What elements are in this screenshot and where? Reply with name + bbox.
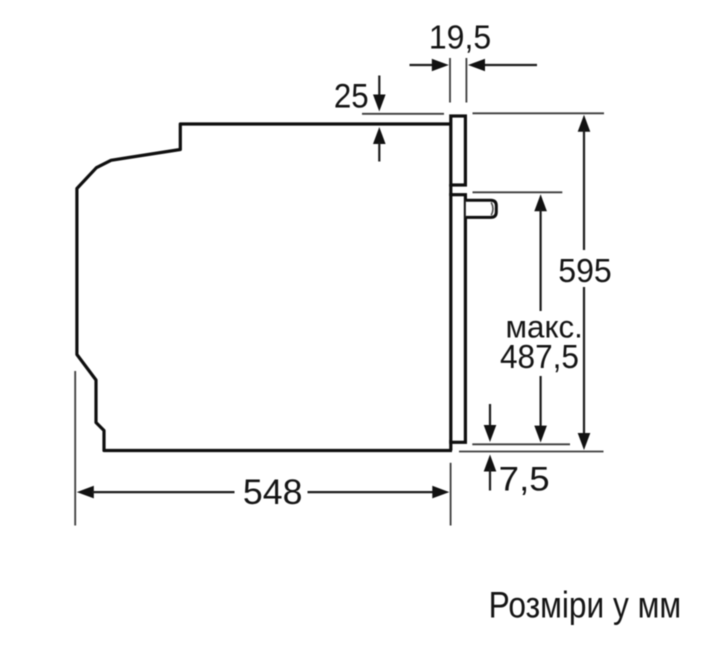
svg-text:19,5: 19,5 xyxy=(429,19,491,56)
svg-text:548: 548 xyxy=(243,473,303,512)
svg-text:Розміри у мм: Розміри у мм xyxy=(489,584,682,626)
svg-text:25: 25 xyxy=(334,77,369,115)
svg-text:595: 595 xyxy=(558,252,612,290)
svg-text:7,5: 7,5 xyxy=(499,460,550,498)
svg-text:487,5: 487,5 xyxy=(500,338,579,376)
